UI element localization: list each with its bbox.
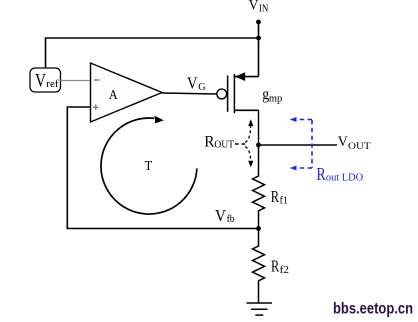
resistor Rf2 with wire — [253, 229, 265, 304]
op-amp inverting input minus marker — [94, 79, 99, 81]
svg-text:T: T — [145, 159, 153, 174]
node Vfb dot — [256, 226, 261, 231]
node VIN terminal dot — [256, 20, 261, 25]
ROUT dashed arrow up — [245, 125, 250, 143]
ground — [247, 303, 273, 315]
node VOUT dot — [256, 143, 261, 148]
svg-text:V: V — [215, 206, 227, 225]
svg-text:f2: f2 — [280, 265, 289, 276]
wire op-amp non-inverting input / left feedback column / bottom feedback — [67, 107, 258, 229]
svg-text:V: V — [35, 71, 46, 92]
svg-text:V: V — [338, 134, 349, 150]
svg-text:OUT: OUT — [348, 141, 371, 152]
op-amp A — [91, 63, 163, 122]
wire drain to output node — [258, 110, 260, 146]
svg-text:A: A — [109, 87, 118, 102]
op-amp non-inverting input plus marker — [93, 105, 99, 111]
blue arrowhead bottom — [290, 166, 297, 171]
voltage reference Vref — [30, 68, 61, 92]
svg-text:R: R — [316, 164, 325, 184]
wire VIN stem — [258, 22, 260, 77]
transistor gmp (PMOS) — [217, 72, 259, 113]
svg-text:G: G — [198, 81, 206, 93]
wire top feedback from above Vref to VIN column — [46, 38, 259, 68]
svg-text:R: R — [271, 187, 280, 206]
svg-text:IN: IN — [259, 3, 269, 14]
resistor Rf1 with wire — [253, 145, 265, 229]
ROUT dashes — [235, 143, 246, 145]
Rout LDO measurement path (blue dashed) — [296, 120, 312, 169]
wire op-amp output to gate — [162, 93, 217, 94]
ROUT dashed arrow down — [245, 147, 250, 162]
svg-text:bbs.eetop.cn: bbs.eetop.cn — [333, 301, 413, 318]
svg-text:R: R — [271, 257, 280, 276]
svg-text:mp: mp — [269, 93, 282, 104]
svg-text:OUT: OUT — [214, 140, 234, 151]
node junction top — [256, 36, 261, 41]
wire Vref to op-amp inverting input (gray) — [61, 80, 91, 82]
blue arrowhead top — [290, 117, 297, 122]
wire to VOUT label — [259, 144, 338, 146]
svg-text:fb: fb — [227, 214, 235, 225]
loop gain circular arrow — [101, 116, 197, 214]
svg-text:V: V — [249, 0, 259, 14]
svg-text:ref: ref — [46, 78, 59, 90]
svg-text:out LDO: out LDO — [326, 172, 364, 183]
svg-text:f1: f1 — [280, 195, 289, 206]
svg-text:V: V — [187, 73, 197, 92]
